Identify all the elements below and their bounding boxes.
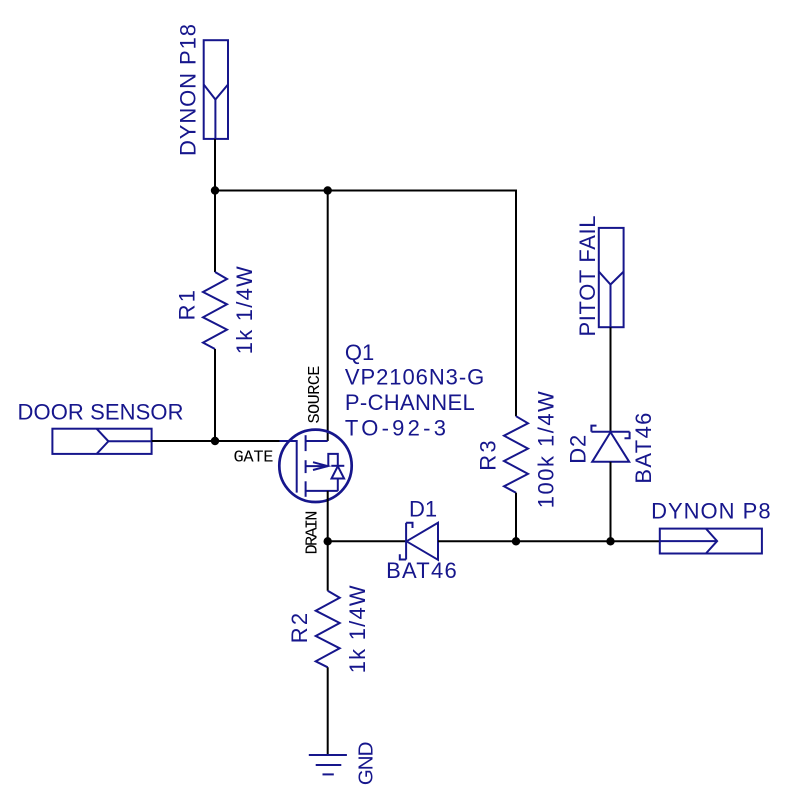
svg-text:GATE: GATE [234,449,274,468]
body diode cathode bar [331,465,344,467]
wire from DYNON P18 down [214,139,216,191]
wire top horizontal to R3 [215,191,516,417]
svg-text:R1: R1 [174,290,199,320]
wire gate [152,440,280,442]
svg-text:VP2106N3-G: VP2106N3-G [345,364,484,389]
svg-text:DRAIN: DRAIN [304,511,323,555]
junction node D2 bottom [606,537,614,545]
wire D2 to node [610,462,612,542]
source connect [306,440,328,442]
drain connect [306,490,338,492]
junction node R3 bottom [512,537,520,545]
junction node gate/R1 [211,437,219,445]
wire drain to D1 [328,540,406,542]
gate lead inside circle [280,440,297,442]
svg-text:R3: R3 [475,440,500,470]
svg-text:1k 1/4W: 1k 1/4W [232,266,257,354]
resistor R3 [504,416,528,493]
body diode anode lead [337,479,339,491]
svg-text:P-CHANNEL: P-CHANNEL [345,390,475,415]
bulk line with arrow [306,465,328,467]
channel segment middle [305,460,307,473]
junction node at source wire top [324,186,332,194]
junction node at R1 top [211,186,219,194]
channel segment top [305,435,307,451]
svg-text:1k 1/4W: 1k 1/4W [345,585,370,673]
svg-text:BAT46: BAT46 [386,558,457,583]
connector J2 DOOR SENSOR [52,429,151,454]
gate bar [296,440,298,493]
wire D1 to DYNON P8 [438,540,660,542]
wire source vertical [327,191,329,442]
channel segment bottom [305,481,307,497]
svg-text:Q1: Q1 [345,340,374,365]
connector J3 PITOT FAIL [599,228,624,327]
svg-text:DYNON P8: DYNON P8 [651,499,771,524]
svg-text:D2: D2 [566,435,591,464]
diode D2 BAT46 [591,426,629,462]
connector J1 DYNON P18 [204,40,228,139]
svg-text:SOURCE: SOURCE [306,366,325,424]
svg-text:DYNON P18: DYNON P18 [176,24,201,156]
ground [309,755,347,774]
svg-text:100k 1/4W: 100k 1/4W [534,391,559,508]
wire drain vertical [327,491,329,591]
svg-text:DOOR SENSOR: DOOR SENSOR [18,399,184,424]
svg-text:BAT46: BAT46 [631,413,656,484]
junction node drain [324,537,332,545]
svg-text:D1: D1 [409,497,437,522]
transistor Q1 MOSFET body [279,430,351,502]
resistor R1 [214,191,216,273]
body diode bracket [328,454,338,466]
svg-text:R2: R2 [287,613,312,643]
connector J4 DYNON P8 [660,529,762,554]
svg-text:PITOT FAIL: PITOT FAIL [575,216,600,337]
svg-text:GND: GND [355,742,378,786]
resistor R2 [316,591,340,668]
wire PITOT FAIL to D2 [610,327,612,432]
body diode triangle [332,466,345,478]
diode D1 BAT46 [400,523,438,560]
